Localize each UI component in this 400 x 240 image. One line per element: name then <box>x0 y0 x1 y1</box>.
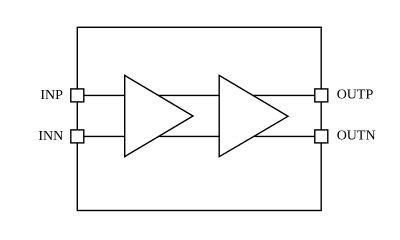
pin square OUTN <box>315 130 328 143</box>
svg-text:OUTN: OUTN <box>337 129 376 144</box>
block outline box <box>77 27 321 210</box>
pin square INN <box>71 130 84 143</box>
wire INP to OUTP (top signal path) <box>77 94 321 96</box>
pin square OUTP <box>315 89 328 102</box>
amplifier stage 1 (triangle) <box>125 75 193 156</box>
svg-text:OUTP: OUTP <box>337 88 374 103</box>
amplifier stage 2 (triangle) <box>219 75 288 156</box>
pin square INP <box>71 89 84 102</box>
svg-text:INN: INN <box>38 129 63 144</box>
svg-text:INP: INP <box>40 88 63 103</box>
wire INN to OUTN (bottom signal path) <box>77 135 321 137</box>
